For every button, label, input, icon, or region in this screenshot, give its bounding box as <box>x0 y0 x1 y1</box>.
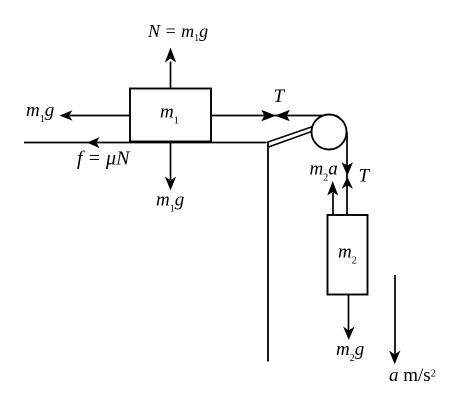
pulley bracket double line <box>267 124 321 147</box>
friction arrowhead on table line <box>87 137 100 148</box>
svg-text:N = m1g: N = m1g <box>147 21 208 44</box>
string vertical from pulley to m2 <box>346 132 348 215</box>
tension bowtie arrowheads on vertical string <box>342 162 353 189</box>
weight arrow m1g (down) <box>165 142 176 191</box>
block m2 <box>328 215 368 295</box>
table surface line <box>24 142 266 144</box>
block m1 <box>130 89 211 142</box>
svg-text:T: T <box>274 86 286 107</box>
weight arrow m2g (down) <box>343 295 354 341</box>
svg-text:a m/s2: a m/s2 <box>389 365 436 386</box>
svg-text:f = μN: f = μN <box>77 148 131 170</box>
pulley circle <box>312 115 347 150</box>
acceleration arrow a (down, right side) <box>389 275 400 364</box>
string horizontal from m1 to pulley <box>211 115 323 117</box>
normal force arrow N <box>165 48 176 89</box>
table leg (vertical edge line) <box>267 143 269 362</box>
left force arrow m1g <box>60 110 131 121</box>
svg-text:T: T <box>359 166 371 187</box>
tension bowtie arrowheads on horizontal string <box>261 110 289 121</box>
m2a arrow (up) <box>327 181 338 215</box>
